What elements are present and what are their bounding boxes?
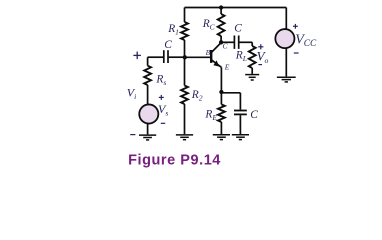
svg-text:Vo: Vo: [257, 48, 269, 64]
svg-text:Figure P9.14: Figure P9.14: [128, 152, 221, 168]
svg-text:RE: RE: [204, 109, 217, 122]
svg-text:RC: RC: [202, 18, 216, 31]
svg-text:C: C: [164, 39, 172, 51]
svg-text:E: E: [224, 62, 230, 71]
svg-text:Vi: Vi: [127, 86, 136, 101]
svg-text:R1: R1: [167, 23, 179, 36]
svg-text:Vs: Vs: [158, 102, 168, 117]
svg-text:R2: R2: [191, 89, 203, 102]
svg-text:VCC: VCC: [295, 33, 317, 49]
svg-text:C: C: [234, 23, 242, 35]
svg-text:B: B: [206, 48, 211, 57]
svg-text:RL: RL: [235, 50, 247, 63]
svg-text:Rs: Rs: [155, 74, 166, 87]
svg-text:C: C: [250, 109, 258, 121]
